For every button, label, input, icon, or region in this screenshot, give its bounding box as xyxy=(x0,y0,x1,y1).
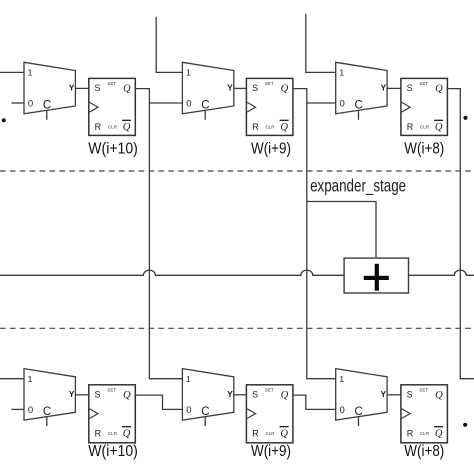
wire bottom mux1 Y to FF4 S xyxy=(75,394,88,396)
wire bottom mux1 select C stub xyxy=(46,417,48,426)
wire bottom FF5 Q jog to mux6 0-input xyxy=(293,395,336,409)
wire bottom mux3 select C stub xyxy=(358,417,360,426)
wire bottom mux1 1-input xyxy=(0,378,24,380)
svg-text:CLR: CLR xyxy=(420,431,430,436)
svg-text:Y: Y xyxy=(227,389,233,399)
svg-text:1: 1 xyxy=(186,374,191,384)
svg-text:Q: Q xyxy=(123,84,131,95)
boundary dashed line upper xyxy=(0,170,474,172)
svg-text:Q: Q xyxy=(280,122,288,133)
svg-text:CLR: CLR xyxy=(265,125,275,130)
mux M5 bottom xyxy=(182,369,233,421)
wire top mux1 0-input stub xyxy=(11,102,24,104)
svg-text:0: 0 xyxy=(28,405,33,416)
wire middle horizontal left with hops xyxy=(0,270,344,275)
svg-text:C: C xyxy=(201,406,209,418)
svg-text:0: 0 xyxy=(28,99,33,110)
svg-text:W(i+8): W(i+8) xyxy=(404,443,444,460)
boundary dashed line lower xyxy=(0,327,474,329)
svg-text:CLR: CLR xyxy=(108,431,118,436)
wire top FF1 Q output down to bottom mux2 1-input xyxy=(135,89,182,379)
svg-text:0: 0 xyxy=(186,405,191,416)
svg-text:Q: Q xyxy=(435,390,443,401)
svg-text:Q: Q xyxy=(123,390,131,401)
svg-text:Q: Q xyxy=(435,84,443,95)
svg-text:Y: Y xyxy=(380,389,386,399)
svg-text:SET: SET xyxy=(107,81,116,86)
svg-text:C: C xyxy=(201,99,209,111)
wire top mux3 select C stub xyxy=(358,110,360,119)
svg-text:W(i+9): W(i+9) xyxy=(251,443,291,460)
svg-text:0: 0 xyxy=(340,405,345,416)
svg-text:CLR: CLR xyxy=(265,431,275,436)
mux M2 top xyxy=(182,62,233,114)
wire bottom mux2 select C stub xyxy=(204,417,206,426)
svg-text:R: R xyxy=(95,429,102,439)
wire top input stub to mux3 1-input xyxy=(306,14,336,73)
wire top mux2 0-input from FF1 Q xyxy=(149,102,182,104)
flip-flop W(i+10) bottom xyxy=(89,385,136,443)
svg-text:Y: Y xyxy=(69,389,75,399)
svg-text:R: R xyxy=(407,429,414,439)
wire bottom mux3 Y to FF6 S xyxy=(387,394,401,396)
svg-text:Y: Y xyxy=(69,82,75,92)
flip-flop W(i+8) top xyxy=(401,78,448,135)
svg-text:S: S xyxy=(252,83,258,93)
wire bottom mux2 Y to FF5 S xyxy=(234,394,247,396)
svg-text:1: 1 xyxy=(28,67,33,77)
svg-text:S: S xyxy=(94,83,100,93)
wire expander tap from FF2 Q line to adder top xyxy=(307,202,376,259)
svg-text:W(i+8): W(i+8) xyxy=(404,141,444,158)
flip-flop W(i+9) bottom xyxy=(246,385,293,443)
wire middle horizontal right with hop xyxy=(409,270,474,275)
svg-text:0: 0 xyxy=(186,99,191,110)
wire top mux1 select C stub xyxy=(46,110,48,119)
svg-text:Q: Q xyxy=(123,429,131,440)
svg-text:CLR: CLR xyxy=(420,125,430,130)
svg-text:1: 1 xyxy=(339,374,344,384)
svg-text:SET: SET xyxy=(419,388,428,393)
mux M6 bottom xyxy=(336,369,387,421)
svg-text:S: S xyxy=(252,390,258,400)
svg-text:W(i+9): W(i+9) xyxy=(251,141,291,158)
mux M4 bottom xyxy=(24,369,75,421)
flip-flop W(i+9) top xyxy=(246,78,293,135)
node ellipsis dot top-right xyxy=(463,116,467,120)
svg-text:Q: Q xyxy=(435,429,443,440)
svg-text:SET: SET xyxy=(265,388,274,393)
svg-text:CLR: CLR xyxy=(108,125,118,130)
node ellipsis dot bottom-right xyxy=(463,423,467,427)
svg-text:Y: Y xyxy=(380,82,386,92)
wire top mux1 Y to FF1 S xyxy=(75,87,88,89)
svg-text:Q: Q xyxy=(435,122,443,133)
svg-text:R: R xyxy=(252,429,259,439)
svg-text:Q: Q xyxy=(123,122,131,133)
svg-text:R: R xyxy=(252,122,259,132)
svg-text:SET: SET xyxy=(265,81,274,86)
wire top FF2 Q output down to bottom mux3 1-input xyxy=(293,89,336,379)
svg-text:C: C xyxy=(355,99,363,111)
svg-text:SET: SET xyxy=(419,81,428,86)
svg-text:expander_stage: expander_stage xyxy=(310,176,406,197)
svg-text:C: C xyxy=(43,99,51,111)
svg-text:1: 1 xyxy=(28,374,33,384)
flip-flop W(i+10) top xyxy=(89,78,136,135)
svg-text:S: S xyxy=(407,390,413,400)
svg-text:Q: Q xyxy=(280,429,288,440)
svg-text:R: R xyxy=(407,122,414,132)
svg-text:S: S xyxy=(407,83,413,93)
wire top FF3 Q output down and out right edge xyxy=(447,89,474,379)
wire top mux2 select C stub xyxy=(204,110,206,119)
wire top input stub to mux2 1-input xyxy=(156,17,182,73)
svg-text:W(i+10): W(i+10) xyxy=(88,141,138,158)
adder U4 xyxy=(344,258,408,293)
mux M3 top xyxy=(336,62,387,114)
mux M1 top xyxy=(24,62,75,114)
svg-text:Q: Q xyxy=(281,84,289,95)
wire bottom mux1 0-input stub xyxy=(11,408,24,410)
wire top mux2 Y to FF2 S xyxy=(234,87,247,89)
svg-text:SET: SET xyxy=(107,388,116,393)
node ellipsis dot top-left xyxy=(2,118,6,122)
svg-text:Y: Y xyxy=(227,82,233,92)
svg-text:R: R xyxy=(95,122,102,132)
svg-text:0: 0 xyxy=(340,99,345,110)
wire top mux3 Y to FF3 S xyxy=(387,87,401,89)
wire bottom FF4 Q jog to mux5 0-input xyxy=(135,395,182,409)
svg-text:W(i+10): W(i+10) xyxy=(88,443,138,460)
svg-text:1: 1 xyxy=(186,67,191,77)
svg-text:Q: Q xyxy=(281,390,289,401)
svg-text:C: C xyxy=(43,406,51,418)
flip-flop W(i+8) bottom xyxy=(401,385,448,443)
svg-text:C: C xyxy=(355,406,363,418)
wire top mux3 0-input from FF2 Q xyxy=(307,102,336,104)
svg-text:S: S xyxy=(94,390,100,400)
svg-text:1: 1 xyxy=(339,67,344,77)
wire top mux1 1-input xyxy=(0,71,24,73)
